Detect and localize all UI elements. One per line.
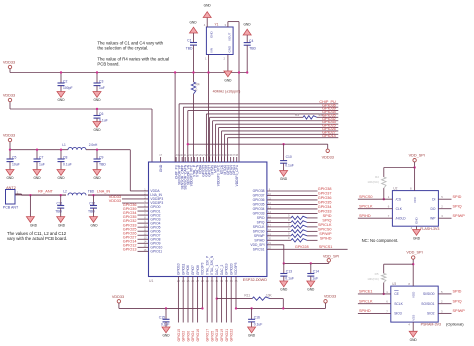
- svg-text:VDD33: VDD33: [3, 94, 15, 98]
- svg-text:L2: L2: [63, 190, 67, 194]
- svg-text:GND: GND: [57, 98, 65, 102]
- svg-text:SCLK: SCLK: [394, 302, 403, 306]
- svg-text:SPICS0: SPICS0: [359, 195, 373, 199]
- svg-text:GND: GND: [57, 176, 65, 180]
- svg-text:GND: GND: [162, 333, 170, 337]
- svg-text:GPIO10: GPIO10: [177, 263, 181, 275]
- svg-text:10K(NC): 10K(NC): [367, 180, 379, 184]
- svg-text:GPIO35: GPIO35: [318, 201, 332, 205]
- svg-text:GPIO11: GPIO11: [150, 250, 162, 254]
- svg-text:the selection of the crystal.: the selection of the crystal.: [97, 46, 148, 51]
- svg-text:GND: GND: [224, 79, 232, 83]
- svg-text:SI/SIO0: SI/SIO0: [423, 292, 435, 296]
- svg-text:vary with the actual PCB board: vary with the actual PCB board.: [7, 236, 67, 241]
- svg-text:ESP32-D0WD: ESP32-D0WD: [243, 278, 268, 282]
- svg-text:LNA_IN: LNA_IN: [97, 190, 111, 194]
- svg-text:XTAL_32K_N: XTAL_32K_N: [210, 255, 214, 275]
- svg-text:CE: CE: [394, 292, 399, 296]
- svg-text:TBD: TBD: [88, 210, 95, 214]
- svg-text:C4: C4: [249, 39, 253, 43]
- svg-text:GPIO15: GPIO15: [177, 329, 181, 342]
- svg-text:SPIQ: SPIQ: [322, 218, 331, 222]
- svg-text:C2: C2: [63, 79, 67, 83]
- svg-text:PSRAM-3V3: PSRAM-3V3: [421, 323, 441, 327]
- svg-text:1uF: 1uF: [312, 277, 318, 281]
- svg-text:NC: No component.: NC: No component.: [362, 238, 399, 243]
- svg-text:GPIO19: GPIO19: [220, 329, 224, 342]
- svg-text:FLASH-3V3: FLASH-3V3: [420, 227, 439, 231]
- svg-text:GND: GND: [90, 223, 98, 227]
- svg-text:VDD_SPI: VDD_SPI: [323, 254, 339, 258]
- svg-text:C5: C5: [12, 155, 16, 159]
- svg-text:XIN: XIN: [210, 48, 214, 53]
- svg-text:GPIO11: GPIO11: [181, 263, 185, 275]
- svg-text:C7: C7: [39, 155, 43, 159]
- svg-text:40MHz (±10ppm): 40MHz (±10ppm): [213, 90, 241, 94]
- svg-text:10K(NC): 10K(NC): [367, 277, 379, 281]
- svg-text:GPIO33: GPIO33: [318, 210, 332, 214]
- svg-text:R4: R4: [196, 83, 200, 87]
- svg-text:SPID: SPID: [453, 290, 462, 294]
- svg-text:GPIO0: GPIO0: [186, 331, 190, 342]
- svg-text:GPIO13: GPIO13: [123, 247, 137, 251]
- svg-text:VDD_SPI: VDD_SPI: [406, 251, 422, 255]
- svg-text:GPIO6: GPIO6: [186, 265, 190, 275]
- svg-text:1uF: 1uF: [99, 86, 105, 90]
- svg-text:SPICLK: SPICLK: [359, 300, 373, 304]
- svg-text:1uF: 1uF: [39, 162, 45, 166]
- svg-text:DAC_1: DAC_1: [215, 264, 219, 275]
- svg-text:SPICE1: SPICE1: [359, 290, 373, 294]
- svg-text:GPIO36: GPIO36: [253, 198, 265, 202]
- svg-text:GPIO20: GPIO20: [229, 263, 233, 275]
- svg-text:XTAL_32K_P: XTAL_32K_P: [205, 256, 209, 275]
- svg-text:C14: C14: [313, 270, 319, 274]
- svg-text:SO/SIO1: SO/SIO1: [421, 302, 434, 306]
- svg-text:0.1uF: 0.1uF: [161, 322, 170, 326]
- svg-text:GND: GND: [204, 4, 212, 8]
- svg-text:0: 0: [196, 88, 198, 92]
- svg-text:WP: WP: [430, 216, 436, 220]
- svg-text:GPIO28: GPIO28: [295, 245, 309, 249]
- svg-text:VDD33: VDD33: [3, 134, 15, 138]
- svg-text:GND: GND: [228, 45, 232, 53]
- svg-text:SPIHD: SPIHD: [254, 239, 265, 243]
- svg-text:SPICS0: SPICS0: [253, 230, 265, 234]
- svg-text:C1: C1: [187, 39, 191, 43]
- svg-text:GPIO37: GPIO37: [318, 192, 332, 196]
- svg-text:VDD33: VDD33: [324, 294, 336, 298]
- svg-text:SPIWP: SPIWP: [254, 234, 265, 238]
- svg-text:SPICS1: SPICS1: [319, 245, 333, 249]
- svg-text:DO: DO: [430, 207, 435, 211]
- svg-text:GND: GND: [93, 128, 101, 132]
- svg-text:SPIQ: SPIQ: [257, 221, 265, 225]
- svg-text:(Optional): (Optional): [446, 322, 464, 327]
- svg-text:GND: GND: [6, 176, 14, 180]
- svg-text:U3: U3: [392, 282, 396, 286]
- svg-text:GND: GND: [248, 333, 256, 337]
- svg-text:VSS: VSS: [411, 315, 415, 321]
- svg-text:0.1uF: 0.1uF: [254, 322, 263, 326]
- svg-text:GPIO34: GPIO34: [253, 207, 265, 211]
- svg-text:VDD33: VDD33: [109, 199, 121, 203]
- svg-text:VDD3P3: VDD3P3: [201, 262, 205, 275]
- svg-text:R2: R2: [375, 175, 379, 179]
- svg-text:C8: C8: [63, 155, 67, 159]
- svg-text:GND: GND: [30, 223, 38, 227]
- svg-text:SPICS0: SPICS0: [318, 227, 332, 231]
- svg-text:SPIQ: SPIQ: [453, 300, 462, 304]
- svg-text:0.1uF: 0.1uF: [99, 118, 108, 122]
- svg-text:VDD3P3_CPU: VDD3P3_CPU: [235, 164, 239, 186]
- svg-text:SPICLK: SPICLK: [318, 223, 332, 227]
- svg-text:GPIO4: GPIO4: [191, 331, 195, 342]
- svg-text:DI: DI: [432, 197, 435, 201]
- svg-text:GPIO17: GPIO17: [206, 329, 210, 342]
- svg-text:SPIHD: SPIHD: [359, 309, 371, 313]
- svg-text:GPIO5: GPIO5: [210, 331, 214, 342]
- svg-text:GPIO22: GPIO22: [230, 329, 234, 342]
- svg-text:/CS: /CS: [396, 197, 402, 201]
- svg-text:PCB board.: PCB board.: [97, 62, 119, 67]
- svg-text:SPICLK: SPICLK: [359, 205, 373, 209]
- svg-text:GPIO21: GPIO21: [225, 329, 229, 342]
- svg-text:SPID: SPID: [257, 216, 265, 220]
- svg-text:10uF: 10uF: [12, 162, 20, 166]
- svg-text:VDD33: VDD33: [3, 61, 15, 65]
- svg-text:SIO2: SIO2: [427, 312, 435, 316]
- svg-text:GPIO2: GPIO2: [182, 331, 186, 342]
- svg-text:GND: GND: [58, 223, 66, 227]
- svg-text:DAC_2: DAC_2: [220, 264, 224, 275]
- svg-text:VDD_SPI: VDD_SPI: [250, 243, 264, 247]
- svg-text:VDD33: VDD33: [322, 155, 334, 159]
- svg-text:SPIHD: SPIHD: [320, 236, 332, 240]
- svg-text:R5: R5: [375, 272, 379, 276]
- svg-text:C10: C10: [286, 155, 292, 159]
- svg-text:XOUT: XOUT: [228, 32, 232, 41]
- svg-text:GND: GND: [413, 237, 421, 241]
- svg-text:100pF: 100pF: [63, 86, 73, 90]
- svg-text:TBD: TBD: [186, 46, 193, 50]
- svg-text:TBD: TBD: [99, 162, 106, 166]
- svg-text:GND: GND: [93, 98, 101, 102]
- svg-text:GPIO35: GPIO35: [253, 203, 265, 207]
- svg-text:GND: GND: [307, 287, 315, 291]
- svg-text:GPIO7: GPIO7: [191, 265, 195, 275]
- svg-text:GPIO8: GPIO8: [196, 265, 200, 275]
- svg-text:SPID: SPID: [323, 214, 332, 218]
- svg-text:GND: GND: [93, 176, 101, 180]
- svg-text:U1: U1: [149, 279, 153, 283]
- svg-text:SPICLK: SPICLK: [253, 225, 266, 229]
- svg-text:Y1: Y1: [214, 22, 218, 26]
- svg-text:2.0nH: 2.0nH: [89, 143, 98, 147]
- svg-text:10K: 10K: [266, 293, 273, 297]
- svg-text:GND: GND: [415, 217, 419, 225]
- svg-text:SPIQ: SPIQ: [453, 205, 462, 209]
- svg-text:R3: R3: [295, 113, 299, 117]
- svg-text:SPICS1: SPICS1: [253, 248, 265, 252]
- svg-text:/HOLD: /HOLD: [396, 216, 407, 220]
- svg-text:SPIWP: SPIWP: [319, 232, 332, 236]
- svg-text:R11: R11: [244, 293, 250, 297]
- svg-text:L1: L1: [62, 143, 66, 147]
- svg-text:VDD_SPI: VDD_SPI: [409, 154, 425, 158]
- svg-text:VDD33: VDD33: [112, 295, 124, 299]
- svg-text:SPIHD: SPIHD: [359, 214, 371, 218]
- svg-text:TBD: TBD: [55, 210, 62, 214]
- svg-text:GPIO36: GPIO36: [318, 196, 332, 200]
- svg-text:GPIO18: GPIO18: [215, 329, 219, 342]
- svg-text:GND: GND: [210, 31, 214, 39]
- svg-text:C15: C15: [159, 315, 165, 319]
- svg-text:TBD: TBD: [249, 47, 256, 51]
- svg-text:GPIO16: GPIO16: [196, 329, 200, 342]
- svg-text:GPIO37: GPIO37: [253, 194, 265, 198]
- svg-text:C6: C6: [99, 112, 103, 116]
- svg-text:VCC: VCC: [413, 196, 417, 203]
- svg-text:C9: C9: [99, 155, 103, 159]
- svg-text:GPIO14: GPIO14: [322, 134, 336, 138]
- svg-text:0.1uF: 0.1uF: [63, 162, 72, 166]
- svg-text:GND: GND: [189, 21, 197, 25]
- svg-text:C13: C13: [286, 270, 292, 274]
- svg-text:GPIO34: GPIO34: [318, 205, 332, 209]
- svg-text:GND: GND: [243, 23, 251, 27]
- svg-text:VDD: VDD: [411, 291, 415, 298]
- svg-text:PCB ANT: PCB ANT: [3, 206, 19, 210]
- svg-text:GND: GND: [280, 177, 288, 181]
- svg-text:SPID: SPID: [453, 195, 462, 199]
- svg-text:GPIO38: GPIO38: [253, 189, 265, 193]
- svg-text:C3: C3: [99, 79, 103, 83]
- svg-text:U2: U2: [393, 186, 397, 190]
- svg-text:C16: C16: [254, 315, 260, 319]
- svg-text:VDD3P3: VDD3P3: [234, 262, 238, 275]
- svg-text:GPIO33: GPIO33: [253, 212, 265, 216]
- svg-text:RF_ANT: RF_ANT: [38, 190, 53, 194]
- svg-text:C11: C11: [57, 202, 63, 206]
- svg-text:0.1uF: 0.1uF: [285, 163, 294, 167]
- svg-text:C12: C12: [89, 202, 95, 206]
- svg-text:GND: GND: [159, 164, 163, 172]
- svg-text:GND: GND: [410, 338, 418, 342]
- svg-text:GND: GND: [33, 176, 41, 180]
- svg-text:CLK: CLK: [396, 207, 403, 211]
- svg-text:GND: GND: [280, 287, 288, 291]
- svg-text:0.1uF: 0.1uF: [285, 277, 294, 281]
- svg-text:TBD: TBD: [88, 190, 95, 194]
- svg-text:SIO3: SIO3: [394, 312, 402, 316]
- svg-text:SPIWP: SPIWP: [453, 309, 466, 313]
- svg-text:SPIWP: SPIWP: [453, 214, 466, 218]
- svg-text:GPIO38: GPIO38: [318, 187, 332, 191]
- svg-text:GPIO19: GPIO19: [225, 263, 229, 275]
